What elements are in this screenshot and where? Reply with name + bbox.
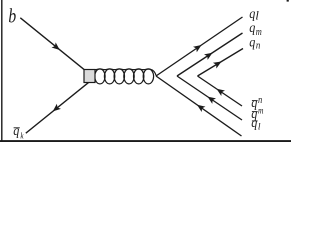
- svg-text:l: l: [255, 9, 259, 23]
- svg-text:q: q: [249, 35, 256, 50]
- svg-text:b: b: [8, 5, 16, 27]
- svg-text:n: n: [256, 40, 261, 52]
- svg-text:q: q: [249, 21, 256, 36]
- svg-text:q: q: [13, 123, 20, 138]
- svg-text:l: l: [258, 122, 261, 132]
- svg-text:m: m: [258, 105, 263, 116]
- svg-text:m: m: [256, 27, 262, 38]
- svg-text:k: k: [20, 131, 24, 141]
